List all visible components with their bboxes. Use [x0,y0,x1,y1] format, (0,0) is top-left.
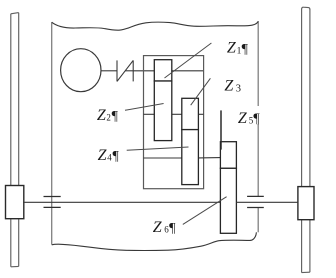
shaft I segment from coupling into gear frame [133,70,154,72]
svg-text:¶: ¶ [113,149,120,164]
shaft I segment from motor to coupling [101,70,117,72]
gear Z1 [154,60,172,81]
svg-text:¶: ¶ [242,42,249,57]
left bearing block [6,186,24,219]
output shaft right segment [236,201,298,203]
label Z3 [224,77,241,94]
shaft I segment right of gear Z1 [172,70,204,72]
svg-text:¶: ¶ [112,109,119,124]
shaft II right stub [198,113,203,115]
gear Z3 [182,98,199,129]
svg-text:Z: Z [97,107,107,124]
leader line Z1 [165,43,212,78]
shaft III left segment [144,157,182,159]
gear Z4 [182,130,199,185]
right bearing block [298,187,314,220]
motor circle [61,49,101,92]
coupling tick 1 [116,60,118,81]
coupling slash [117,60,133,81]
shaft I stub between coupling halves [125,70,133,72]
gear Z2 [154,81,172,141]
svg-text:Z: Z [98,147,108,164]
leader line Z4 [127,147,189,150]
svg-text:Z: Z [238,110,248,127]
svg-text:¶: ¶ [253,112,260,127]
leader line Z3 [191,78,211,105]
vertical shaft line above gear Z5 [220,110,222,149]
label Z2 [97,107,119,124]
label Z1 [227,40,249,58]
housing left wall [51,22,53,244]
right wall bearing tick upper [247,195,264,197]
coupling tick 2 [132,60,134,81]
right wall bearing tick lower [247,207,264,209]
shaft II left stub [144,113,155,115]
label Z4 [98,147,120,164]
svg-text:Z: Z [227,40,237,57]
svg-text:2: 2 [106,112,111,122]
shaft III right segment to gear Z5 [198,157,220,159]
svg-text:Z: Z [153,219,163,236]
svg-text:¶: ¶ [169,221,176,236]
housing bottom break line (wavy) [52,232,257,250]
right vertical shaft [302,7,310,272]
left wall bearing tick lower [44,206,61,208]
label Z5 [238,110,261,127]
label Z6 [153,219,176,236]
housing top break line (wavy) [52,21,259,30]
housing right wall [257,21,259,232]
gear Z6 [220,168,236,233]
svg-text:3: 3 [236,84,241,95]
gear frame outer rectangle [144,56,204,189]
left vertical shaft [11,13,19,267]
svg-text:Z: Z [224,77,234,94]
output shaft left segment [23,201,220,203]
leader line Z6 [183,197,227,225]
svg-text:4: 4 [107,152,112,162]
left wall bearing tick upper [44,196,61,198]
gear Z5 [220,142,236,169]
leader line Z2 [125,104,164,111]
shaft II middle segment [172,113,182,115]
